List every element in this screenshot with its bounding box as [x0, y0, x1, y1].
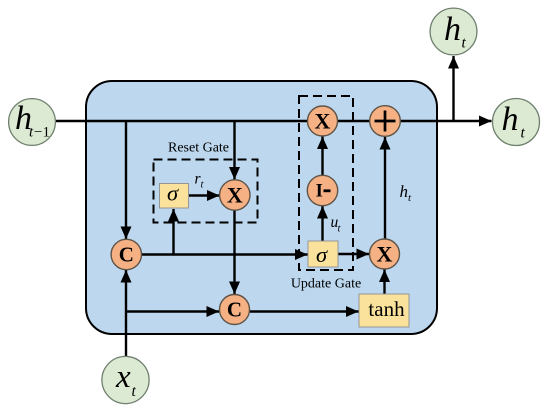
svg-text:h: h: [444, 11, 461, 48]
svg-text:C: C: [119, 243, 134, 267]
svg-text:t: t: [521, 125, 526, 142]
svg-text:t: t: [462, 35, 467, 52]
svg-text:−1: −1: [34, 125, 50, 141]
svg-text:C: C: [227, 298, 242, 322]
svg-text:h: h: [400, 182, 409, 201]
svg-text:X: X: [227, 182, 243, 207]
svg-text:X: X: [315, 108, 331, 133]
svg-text:Reset Gate: Reset Gate: [168, 141, 229, 156]
svg-text:X: X: [377, 241, 393, 266]
svg-text:σ: σ: [316, 242, 328, 267]
svg-text:Update Gate: Update Gate: [291, 277, 361, 292]
svg-text:t: t: [132, 383, 137, 400]
svg-text:tanh: tanh: [368, 297, 405, 321]
svg-text:h: h: [502, 101, 519, 138]
svg-text:x: x: [115, 359, 131, 395]
svg-text:I: I: [316, 182, 323, 202]
svg-text:σ: σ: [167, 180, 179, 205]
